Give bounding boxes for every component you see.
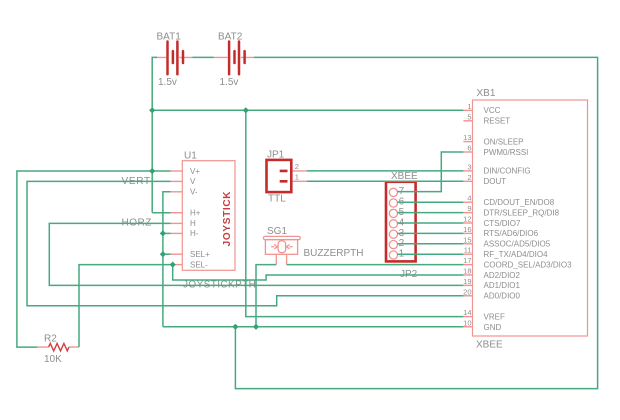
svg-text:2: 2 xyxy=(399,238,405,249)
node V+ xyxy=(149,168,155,174)
wire H- connection xyxy=(163,232,171,234)
svg-text:RF_TX/AD4/DIO4: RF_TX/AD4/DIO4 xyxy=(484,250,549,259)
wire JP2 pin3 to RTS xyxy=(397,232,463,234)
wire buzzer plus to COORD_SEL xyxy=(287,264,464,266)
node H- xyxy=(160,230,166,236)
svg-text:6: 6 xyxy=(467,144,471,153)
connector JP2 pin numbers xyxy=(399,186,405,260)
svg-text:V-: V- xyxy=(190,188,198,197)
svg-text:BAT2: BAT2 xyxy=(218,32,243,43)
svg-text:H: H xyxy=(190,219,196,228)
wire battery plus rail drop from BAT1 xyxy=(152,57,157,110)
wire HORZ net H to AD1 xyxy=(49,223,463,285)
svg-text:1: 1 xyxy=(295,172,299,181)
svg-text:12: 12 xyxy=(463,215,471,224)
wire between BAT1 and BAT2 xyxy=(192,56,214,58)
svg-text:10: 10 xyxy=(463,319,471,328)
svg-text:VCC: VCC xyxy=(484,106,501,115)
wire SEL- to R2 right xyxy=(79,265,171,348)
svg-text:JOYSTICK: JOYSTICK xyxy=(222,191,233,247)
buzzer SG1 xyxy=(263,236,300,264)
node SEL+ xyxy=(160,251,166,257)
svg-text:10K: 10K xyxy=(44,354,62,365)
wire SEL- to AD2 xyxy=(173,265,464,280)
svg-text:TTL: TTL xyxy=(268,194,286,205)
svg-text:RESET: RESET xyxy=(484,117,511,126)
svg-text:PWM0/RSSI: PWM0/RSSI xyxy=(484,148,529,157)
IC XB1 xbee module body xyxy=(473,100,588,336)
wire JP1 pin1 to DOUT xyxy=(307,180,464,182)
svg-text:20: 20 xyxy=(463,287,471,296)
wire H+ connection xyxy=(152,212,170,214)
connector JP2 xbee header body xyxy=(386,182,416,262)
svg-text:1.5v: 1.5v xyxy=(158,77,177,88)
svg-text:4: 4 xyxy=(399,217,405,228)
svg-text:1.5v: 1.5v xyxy=(220,77,239,88)
svg-text:DIN/CONFIG: DIN/CONFIG xyxy=(484,167,531,176)
wire JP2 pin2 to ASSOC xyxy=(397,243,463,245)
JP2 pads pins 7..1 xyxy=(389,188,397,259)
svg-text:XBEE: XBEE xyxy=(476,340,503,351)
svg-text:H-: H- xyxy=(190,229,199,238)
wire SEL+ connection xyxy=(163,253,171,255)
wire GND rail xyxy=(163,326,464,328)
svg-text:SG1: SG1 xyxy=(267,226,287,237)
svg-text:3: 3 xyxy=(467,162,471,171)
svg-text:CTS/DIO7: CTS/DIO7 xyxy=(484,219,521,228)
svg-text:3: 3 xyxy=(399,228,405,239)
svg-text:BUZZERPTH: BUZZERPTH xyxy=(304,248,364,259)
svg-text:AD0/DIO0: AD0/DIO0 xyxy=(484,292,521,301)
svg-text:6: 6 xyxy=(399,197,405,208)
wire JP2 pin6 to CD xyxy=(397,201,463,203)
wire JP2 pin7 to PWM0 xyxy=(397,152,463,192)
XB1 pin stubs xyxy=(463,110,472,326)
XB1 pin names xyxy=(484,106,573,332)
svg-text:13: 13 xyxy=(463,133,471,142)
svg-text:5: 5 xyxy=(467,112,471,121)
svg-text:AD2/DIO2: AD2/DIO2 xyxy=(484,271,521,280)
svg-text:DOUT: DOUT xyxy=(484,177,507,186)
resistor R2 xyxy=(49,343,69,351)
svg-text:JP1: JP1 xyxy=(267,150,285,161)
node battery rail VREF branch xyxy=(243,107,249,113)
svg-text:V+: V+ xyxy=(190,167,200,176)
svg-text:R2: R2 xyxy=(44,334,57,345)
svg-text:H+: H+ xyxy=(190,209,201,218)
svg-text:XB1: XB1 xyxy=(477,88,496,99)
wire JP2 pin5 to DTR xyxy=(397,212,463,214)
svg-text:7: 7 xyxy=(399,186,405,197)
svg-text:U1: U1 xyxy=(184,151,197,162)
svg-text:9: 9 xyxy=(467,204,471,213)
svg-text:SEL+: SEL+ xyxy=(190,250,210,259)
svg-text:4: 4 xyxy=(467,194,471,203)
svg-text:11: 11 xyxy=(464,246,472,255)
svg-text:VREF: VREF xyxy=(484,312,505,321)
svg-text:DTR/SLEEP_RQ/DI8: DTR/SLEEP_RQ/DI8 xyxy=(484,208,560,217)
svg-text:GND: GND xyxy=(484,323,502,332)
wire JP1 pin2 to DIN xyxy=(307,170,464,172)
JP1 pin contacts xyxy=(280,171,288,181)
wire VCC rail xyxy=(152,109,463,111)
wire BAT2 minus around right edge and bottom to GND rail xyxy=(235,57,597,388)
svg-text:ON/SLEEP: ON/SLEEP xyxy=(484,137,524,146)
wire plus rail to VREF xyxy=(246,110,464,316)
svg-text:CD/DOUT_EN/DO8: CD/DOUT_EN/DO8 xyxy=(484,198,555,207)
wire V- to ground rail xyxy=(163,192,171,327)
wire plus rail vertical xyxy=(151,110,153,212)
svg-text:V: V xyxy=(190,177,196,186)
svg-text:SEL-: SEL- xyxy=(190,260,208,269)
svg-text:ASSOC/AD5/DIO5: ASSOC/AD5/DIO5 xyxy=(484,240,551,249)
joystick U1 body xyxy=(182,161,235,271)
U1 pin stubs V+ V V- H+ H H- SEL+ SEL- xyxy=(171,171,183,265)
JP1 pin leads xyxy=(293,171,307,181)
node GND rail buzzer xyxy=(253,324,259,330)
svg-text:5: 5 xyxy=(399,207,405,218)
svg-text:AD1/DIO1: AD1/DIO1 xyxy=(484,281,521,290)
node GND rail left xyxy=(232,324,238,330)
battery BAT1 xyxy=(155,42,192,75)
svg-text:14: 14 xyxy=(463,308,471,317)
svg-text:18: 18 xyxy=(463,267,471,276)
node SEL- xyxy=(170,262,176,268)
svg-text:1: 1 xyxy=(467,102,471,111)
battery BAT2 xyxy=(214,42,254,75)
wire JP2 pin4 to CTS xyxy=(397,222,463,224)
resistor R2 leads xyxy=(37,346,79,348)
svg-text:16: 16 xyxy=(463,225,471,234)
svg-text:2: 2 xyxy=(467,173,471,182)
svg-text:19: 19 xyxy=(463,277,471,286)
svg-text:RTS/AD6/DIO6: RTS/AD6/DIO6 xyxy=(484,229,539,238)
svg-text:15: 15 xyxy=(463,235,471,244)
svg-text:BAT1: BAT1 xyxy=(157,32,182,43)
svg-text:2: 2 xyxy=(295,162,299,171)
svg-text:17: 17 xyxy=(463,256,471,265)
connector JP1 body xyxy=(267,160,292,192)
svg-text:COORD_SEL/AD3/DIO3: COORD_SEL/AD3/DIO3 xyxy=(484,260,573,269)
wire JP2 pin1 to RF_TX xyxy=(397,253,463,255)
wire V+ to R2 left xyxy=(17,171,171,347)
svg-text:1: 1 xyxy=(399,249,405,260)
node battery rail left xyxy=(149,107,155,113)
U1 pin names xyxy=(190,167,210,270)
wire buzzer minus to GND rail xyxy=(256,265,276,327)
wire VERT net V to AD0 xyxy=(27,181,463,305)
